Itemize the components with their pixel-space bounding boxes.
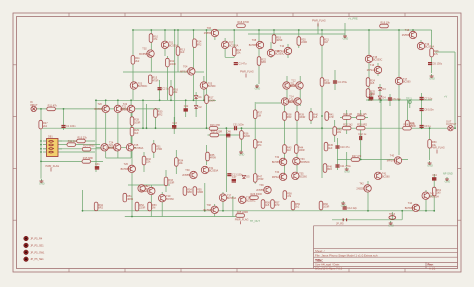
svg-text:2N5551: 2N5551: [204, 32, 213, 35]
svg-text:GND: GND: [255, 88, 261, 91]
svg-text:C7 10n: C7 10n: [424, 97, 433, 100]
svg-text:T42: T42: [359, 183, 364, 186]
svg-text:8R2: 8R2: [158, 113, 163, 116]
svg-text:Sheet: /: Sheet: /: [315, 249, 325, 253]
svg-text:R26 330R: R26 330R: [251, 193, 262, 196]
svg-text:BC556B: BC556B: [272, 161, 282, 164]
svg-text:Size A4Legal / Date:: Size A4Legal / Date:: [315, 263, 340, 267]
svg-text:BC550C: BC550C: [300, 161, 310, 164]
svg-text:T40: T40: [390, 155, 395, 158]
svg-text:330R: 330R: [197, 191, 203, 194]
svg-text:BC550C: BC550C: [138, 85, 148, 88]
svg-text:Rev:: Rev:: [428, 263, 434, 267]
svg-text:C41: C41: [95, 163, 100, 166]
svg-text:4R99: 4R99: [276, 39, 283, 42]
svg-text:T04: T04: [183, 66, 188, 69]
svg-text:BC550A: BC550A: [169, 44, 179, 47]
svg-text:220R: 220R: [139, 207, 145, 210]
svg-text:330R: 330R: [299, 116, 305, 119]
svg-text:BC560: BC560: [299, 175, 307, 178]
svg-text:T18: T18: [405, 29, 410, 32]
svg-text:C4 470u: C4 470u: [338, 81, 348, 84]
svg-text:T24: T24: [109, 141, 114, 144]
svg-text:T20: T20: [98, 103, 103, 106]
svg-text:C11 470u: C11 470u: [340, 165, 351, 168]
svg-text:C9 1u: C9 1u: [424, 125, 431, 128]
svg-text:BC556B: BC556B: [249, 44, 259, 47]
svg-text:JP_P5_SE1: JP_P5_SE1: [30, 258, 44, 261]
svg-text:TP_OUT: TP_OUT: [250, 220, 260, 223]
svg-text:R12 1k0: R12 1k0: [68, 140, 78, 143]
svg-text:MPSA18: MPSA18: [140, 190, 150, 193]
svg-text:C32 1u: C32 1u: [358, 133, 367, 136]
svg-text:BC556B: BC556B: [286, 101, 296, 104]
svg-text:2N5551: 2N5551: [182, 174, 191, 177]
svg-text:C46: C46: [226, 131, 231, 134]
svg-text:BC556B: BC556B: [139, 53, 149, 56]
svg-text:BC556B: BC556B: [204, 209, 214, 212]
svg-text:T10: T10: [280, 45, 285, 48]
svg-text:R15 68R: R15 68R: [83, 157, 93, 160]
svg-text:T32: T32: [275, 156, 280, 159]
svg-text:PWR_FLAG: PWR_FLAG: [312, 20, 326, 23]
svg-text:1M: 1M: [324, 41, 327, 44]
svg-text:68R: 68R: [287, 116, 292, 119]
svg-text:PWR_FLAG: PWR_FLAG: [46, 165, 60, 168]
svg-text:100R: 100R: [323, 206, 329, 209]
svg-text:R27 47k: R27 47k: [352, 155, 362, 158]
svg-text:1k0: 1k0: [180, 51, 185, 54]
svg-text:470R: 470R: [153, 80, 159, 83]
svg-text:BC560: BC560: [166, 198, 174, 201]
svg-text:2N5551: 2N5551: [402, 34, 411, 37]
svg-text:C43: C43: [172, 122, 177, 125]
svg-text:47R: 47R: [275, 204, 280, 207]
svg-text:C45: C45: [369, 94, 374, 97]
svg-text:2k2: 2k2: [287, 149, 292, 152]
svg-text:1k0: 1k0: [437, 192, 442, 195]
svg-text:+V_PRE: +V_PRE: [348, 18, 358, 21]
svg-text:MPSA18: MPSA18: [367, 69, 377, 72]
svg-text:BC550C: BC550C: [373, 59, 383, 62]
svg-text:TP11: TP11: [406, 98, 412, 101]
svg-text:T02: T02: [142, 48, 147, 51]
svg-text:BC560: BC560: [403, 81, 411, 84]
svg-text:BC560: BC560: [208, 85, 216, 88]
svg-text:T28: T28: [143, 185, 148, 188]
svg-text:470R: 470R: [258, 178, 264, 181]
svg-text:T22: T22: [123, 103, 128, 106]
svg-text:C6 150u: C6 150u: [433, 62, 443, 65]
svg-text:R25 220R: R25 220R: [237, 211, 248, 214]
svg-text:C44: C44: [432, 174, 437, 177]
svg-text:1M: 1M: [152, 207, 155, 210]
svg-text:1M: 1M: [258, 114, 261, 117]
svg-text:2N5551: 2N5551: [106, 147, 115, 150]
svg-text:2N5551: 2N5551: [356, 188, 365, 191]
svg-text:JP_P5_SE1: JP_P5_SE1: [30, 244, 44, 247]
svg-text:C3 47u: C3 47u: [238, 62, 247, 65]
svg-text:GND: GND: [445, 181, 451, 184]
svg-text:R24 150R: R24 150R: [404, 124, 415, 127]
svg-text:R11 47k: R11 47k: [48, 104, 58, 107]
svg-text:2k2: 2k2: [43, 125, 48, 128]
svg-text:T14: T14: [289, 96, 294, 99]
svg-text:470R: 470R: [156, 148, 162, 151]
svg-text:220R: 220R: [244, 135, 250, 138]
svg-text:68R: 68R: [187, 191, 192, 194]
svg-text:9/Oct/13 6:46pm 7.0.2: 9/Oct/13 6:46pm 7.0.2: [315, 267, 343, 271]
svg-text:DB1: DB1: [48, 135, 53, 138]
svg-text:T12: T12: [291, 80, 296, 83]
svg-text:JP_P5_R4: JP_P5_R4: [30, 238, 43, 241]
svg-text:BC556B: BC556B: [95, 108, 105, 111]
svg-text:BC550A: BC550A: [227, 197, 237, 200]
svg-text:100R: 100R: [170, 63, 176, 66]
svg-text:R13 22k: R13 22k: [78, 136, 88, 139]
svg-text:C5 22p: C5 22p: [393, 98, 402, 101]
svg-text:1k5: 1k5: [370, 82, 375, 85]
svg-text:T06: T06: [207, 27, 212, 30]
svg-text:C2 1u: C2 1u: [162, 88, 169, 91]
svg-text:2N5551: 2N5551: [256, 189, 265, 192]
svg-text:Title:: Title:: [315, 259, 323, 263]
svg-text:1k0: 1k0: [134, 132, 139, 135]
svg-text:BC550A: BC550A: [134, 147, 144, 150]
svg-text:GND: GND: [429, 78, 435, 81]
svg-text:GND: GND: [239, 154, 245, 157]
svg-text:T26: T26: [124, 163, 129, 166]
svg-text:File: Jarus Phono Stage Model: File: Jarus Phono Stage Model 1 v1.0.Ext…: [315, 253, 378, 257]
svg-text:MPSA18: MPSA18: [272, 176, 282, 179]
svg-text:MPSA18: MPSA18: [120, 108, 130, 111]
svg-text:MPSA18: MPSA18: [180, 71, 190, 74]
svg-text:R16 47R: R16 47R: [210, 124, 220, 127]
svg-text:R22 2k2: R22 2k2: [343, 124, 353, 127]
svg-text:C12 22p: C12 22p: [347, 207, 357, 210]
svg-text:T08: T08: [252, 39, 257, 42]
svg-text:C8 100n: C8 100n: [424, 108, 434, 111]
svg-text:R17 100R: R17 100R: [211, 130, 222, 133]
svg-text:100R: 100R: [134, 121, 140, 124]
svg-text:MPSA18: MPSA18: [277, 50, 287, 53]
svg-text:BC550C: BC550C: [246, 200, 256, 203]
svg-text:8R2: 8R2: [98, 207, 103, 210]
svg-text:BC550A: BC550A: [425, 46, 435, 49]
svg-text:BC550A: BC550A: [430, 195, 440, 198]
svg-text:OUTPUT: OUTPUT: [446, 123, 457, 126]
svg-text:1k5: 1k5: [313, 116, 318, 119]
svg-text:T36: T36: [259, 184, 264, 187]
svg-text:JP_R5: JP_R5: [336, 223, 344, 226]
svg-text:R21 1k5: R21 1k5: [357, 113, 367, 116]
svg-text:1k5: 1k5: [265, 204, 270, 207]
svg-text:150R: 150R: [209, 99, 215, 102]
svg-text:4R99: 4R99: [127, 198, 134, 201]
svg-text:GND: GND: [344, 171, 350, 174]
svg-text:T38: T38: [207, 204, 212, 207]
svg-text:TP13: TP13: [389, 213, 396, 216]
svg-text:NP GND: NP GND: [443, 173, 453, 176]
svg-text:2N5551: 2N5551: [288, 85, 297, 88]
svg-text:4R99: 4R99: [210, 157, 217, 160]
svg-text:8R2: 8R2: [327, 168, 332, 171]
svg-text:220R: 220R: [301, 41, 307, 44]
svg-text:T44: T44: [408, 202, 413, 205]
svg-text:PWR_FLAG: PWR_FLAG: [240, 71, 254, 74]
svg-text:2k2: 2k2: [135, 60, 140, 63]
svg-text:T34: T34: [275, 171, 280, 174]
svg-text:BC550A: BC550A: [209, 170, 219, 173]
svg-text:R14 4R99: R14 4R99: [83, 145, 95, 148]
svg-text:R18 470R: R18 470R: [238, 21, 249, 24]
svg-text:R23 8R2: R23 8R2: [357, 124, 367, 127]
svg-text:R20 1M: R20 1M: [343, 113, 352, 116]
svg-text:JP_P5_SW1: JP_P5_SW1: [30, 251, 45, 254]
svg-text:BC556B: BC556B: [121, 168, 131, 171]
svg-text:C47: C47: [232, 176, 237, 179]
svg-text:GND: GND: [388, 225, 394, 228]
svg-text:GND: GND: [343, 38, 349, 41]
svg-text:T30: T30: [185, 169, 190, 172]
svg-text:C10 47u: C10 47u: [340, 146, 350, 149]
svg-text:68R: 68R: [261, 61, 266, 64]
svg-text:C42: C42: [184, 105, 189, 108]
svg-text:R19 10k: R19 10k: [381, 21, 391, 24]
svg-text:330R: 330R: [324, 82, 330, 85]
svg-text:100R: 100R: [299, 149, 305, 152]
svg-text:BC556B: BC556B: [405, 207, 415, 210]
svg-text:PWR_FLAG: PWR_FLAG: [235, 218, 249, 221]
svg-text:BC560: BC560: [382, 175, 390, 178]
svg-text:1k0: 1k0: [328, 147, 333, 150]
svg-text:GND: GND: [427, 165, 433, 168]
svg-text:C1 100n: C1 100n: [66, 125, 76, 128]
svg-text:8R2: 8R2: [197, 43, 202, 46]
svg-text:47R: 47R: [329, 116, 334, 119]
svg-text:150R: 150R: [168, 182, 174, 185]
svg-text:A 1/1: A 1/1: [429, 267, 436, 271]
svg-text:PWR_FLAG: PWR_FLAG: [431, 147, 445, 150]
svg-text:INPUT: INPUT: [30, 104, 38, 107]
svg-text:T16: T16: [370, 64, 375, 67]
svg-text:GND: GND: [341, 205, 347, 208]
svg-text:GND: GND: [39, 183, 45, 186]
svg-text:C31 100n: C31 100n: [233, 123, 244, 126]
svg-text:+V: +V: [444, 96, 447, 99]
svg-text:BC550A: BC550A: [229, 44, 239, 47]
svg-text:MPSA18: MPSA18: [387, 160, 397, 163]
svg-text:2k2: 2k2: [295, 206, 300, 209]
